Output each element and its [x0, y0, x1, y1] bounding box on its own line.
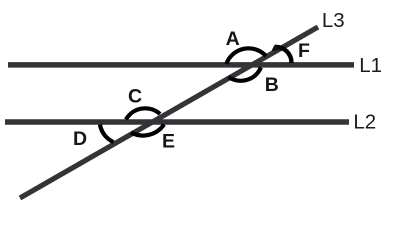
angle arc C — [126, 108, 160, 119]
angle arc B — [229, 68, 261, 81]
angle arc E — [131, 125, 164, 136]
line L2 — [5, 119, 349, 125]
angle arc D — [100, 125, 114, 143]
angle arc F — [275, 47, 292, 63]
svg-text:F: F — [298, 40, 310, 62]
angle arc A — [226, 48, 266, 64]
transversal L3 — [20, 27, 318, 198]
svg-text:B: B — [265, 74, 279, 96]
svg-text:A: A — [226, 28, 240, 50]
angle arc F tip junction — [272, 45, 280, 51]
svg-text:L1: L1 — [359, 54, 382, 77]
line L1 — [8, 62, 354, 68]
svg-text:C: C — [128, 86, 142, 108]
svg-text:E: E — [162, 131, 175, 153]
svg-text:D: D — [73, 128, 87, 150]
svg-text:L3: L3 — [322, 9, 345, 32]
svg-text:L2: L2 — [353, 111, 376, 134]
